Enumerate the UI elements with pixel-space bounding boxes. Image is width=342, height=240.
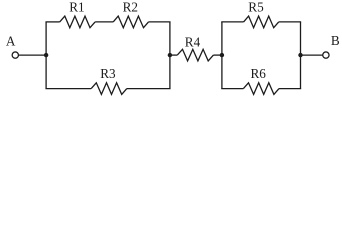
wire block1 right vertical xyxy=(169,22,171,89)
wire block1 bottom-left stub xyxy=(45,88,91,90)
terminal A xyxy=(12,52,18,58)
junction node 4 xyxy=(298,53,302,57)
wire block1 bottom-right stub xyxy=(127,88,171,90)
wire block2 bottom-left stub xyxy=(221,88,243,90)
wire node4 to terminal B xyxy=(301,54,323,56)
svg-text:R1: R1 xyxy=(69,0,84,14)
resistor R6 xyxy=(243,83,279,95)
wire block1 top-left stub xyxy=(45,21,59,23)
junction node 2 xyxy=(168,53,172,57)
svg-text:R4: R4 xyxy=(185,34,201,49)
wire block1 top-right stub xyxy=(149,21,171,23)
svg-text:B: B xyxy=(331,33,340,48)
wire R4 to node3 xyxy=(213,54,222,56)
svg-text:A: A xyxy=(6,34,16,49)
svg-text:R5: R5 xyxy=(248,0,264,14)
wire block2 top-right stub xyxy=(279,21,301,23)
wire block2 right vertical xyxy=(300,22,302,89)
terminal B xyxy=(323,52,329,58)
svg-text:R2: R2 xyxy=(123,0,138,14)
svg-text:R3: R3 xyxy=(100,66,116,81)
wire block1 left vertical xyxy=(45,22,47,89)
resistor R3 xyxy=(91,83,127,95)
wire block2 bottom-right stub xyxy=(279,88,301,90)
resistor R2 xyxy=(113,16,148,28)
svg-text:R6: R6 xyxy=(251,66,267,81)
wire between R1 and R2 xyxy=(95,21,113,23)
wire A to left junction xyxy=(19,54,46,56)
wire block2 top-left stub xyxy=(221,21,243,23)
resistor R1 xyxy=(60,16,95,28)
resistor R4 xyxy=(177,49,213,61)
junction node 1 xyxy=(44,53,48,57)
junction node 3 xyxy=(220,53,224,57)
wire block2 left vertical xyxy=(221,22,223,89)
resistor R5 xyxy=(244,16,279,28)
wire node2 to R4 xyxy=(170,54,177,56)
